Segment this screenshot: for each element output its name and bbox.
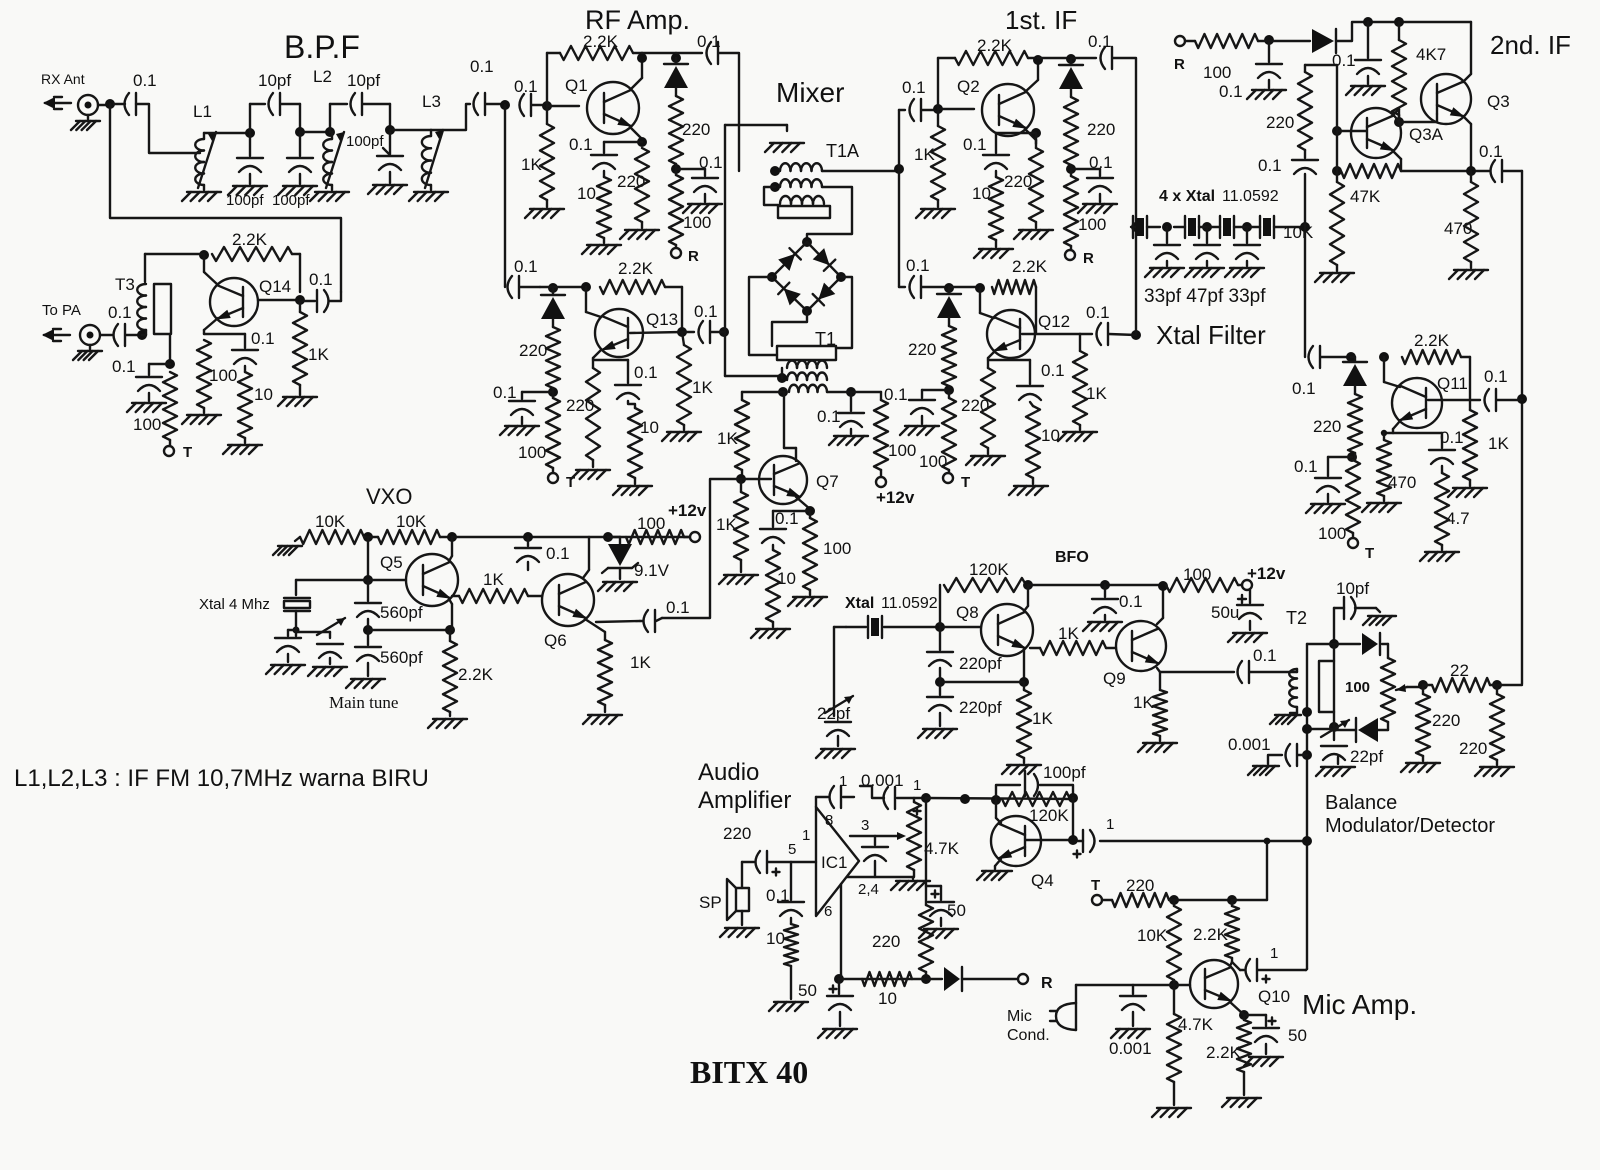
wire Q14 base	[258, 299, 300, 301]
resistor 10 Q13	[628, 401, 642, 478]
svg-text:220: 220	[1432, 711, 1460, 730]
svg-text:10: 10	[777, 569, 796, 588]
ground 220pf	[918, 713, 957, 738]
terminal T Q12	[943, 470, 953, 483]
svg-text:10K: 10K	[315, 512, 346, 531]
node Q11 collector	[1379, 352, 1400, 387]
To PA connector	[80, 325, 100, 345]
label T2	[1286, 608, 1307, 628]
RX antenna arrow	[43, 97, 71, 109]
label 220 Q2 diode	[1087, 120, 1115, 139]
ground To PA	[73, 345, 102, 360]
ground 50u	[1228, 621, 1267, 642]
label 0.1 Q2 in	[902, 78, 926, 97]
winding T1A 1	[780, 163, 822, 171]
transformer T3	[137, 284, 171, 334]
ground 50 Q10	[1244, 1044, 1283, 1066]
transistor Q4	[991, 816, 1041, 866]
transistor Q11	[1392, 378, 1442, 428]
node Q1 emitter	[604, 137, 647, 147]
trimmer 22pf BFO	[825, 696, 853, 736]
wire audio top rail	[926, 798, 1073, 799]
node Q11 T chain	[1347, 452, 1357, 462]
node Q8 base	[935, 622, 945, 632]
title Audio Amplifier	[698, 759, 791, 814]
plus 1 Q4 out	[1074, 851, 1081, 858]
ground 0.1 T1 right	[829, 429, 868, 445]
node 4K7 top a	[1363, 17, 1373, 27]
label 10 audio	[766, 929, 785, 948]
label 2.2K Q11	[1414, 331, 1450, 350]
capacitor 0.1 Q12 in	[899, 276, 949, 298]
ground 100pf B	[278, 174, 317, 195]
wire 2ndIF input top	[1305, 65, 1337, 131]
ground 50 pin6	[818, 1012, 857, 1038]
wire T1A ground rail	[725, 124, 787, 126]
resistor 1K Q1	[540, 106, 554, 200]
title RF Amp.	[585, 5, 690, 35]
label 9.1V	[634, 561, 670, 580]
label 100pf D	[346, 133, 390, 155]
wire B to C	[300, 131, 330, 133]
label T1A	[826, 141, 859, 161]
svg-text:33pf 47pf 33pf: 33pf 47pf 33pf	[1144, 286, 1266, 307]
label 10pf	[1336, 579, 1369, 598]
label 0.1 2nd IF R	[1219, 82, 1243, 101]
label 220pf 2	[959, 698, 1002, 717]
label Xtal 4 Mhz	[199, 596, 270, 613]
resistor 10K mic	[1167, 900, 1181, 980]
label 10 Q12	[1041, 426, 1060, 445]
capacitor 0.1 Q2 emitter	[983, 133, 1009, 169]
wire audio out	[1100, 840, 1307, 842]
transistor Q10	[1190, 960, 1238, 1008]
diode D Q2	[1059, 59, 1083, 89]
label IC1	[821, 853, 847, 872]
label 220 2nd IF in	[1266, 113, 1294, 132]
svg-text:T2: T2	[1286, 608, 1307, 628]
node Q4 collector top	[991, 795, 1001, 805]
ground 1K Q6	[583, 705, 622, 724]
svg-text:10: 10	[878, 989, 897, 1008]
node Q12 collector	[975, 283, 985, 293]
node filter 3	[1234, 222, 1260, 232]
svg-text:220: 220	[617, 172, 645, 191]
capacitor 0.1 Q11 emitter	[1429, 433, 1455, 464]
label 0.1 Q11 in	[1292, 379, 1316, 398]
svg-text:Q5: Q5	[380, 553, 403, 572]
svg-text:Modulator/Detector: Modulator/Detector	[1325, 815, 1495, 837]
ground 220 bal left	[1401, 756, 1440, 772]
svg-text:10pf: 10pf	[347, 71, 380, 90]
wire filter to Q12 node	[1135, 227, 1137, 335]
svg-text:R: R	[688, 248, 699, 265]
svg-text:9.1V: 9.1V	[634, 561, 670, 580]
wire 220 audio gnd chain	[925, 798, 927, 886]
core T1	[777, 346, 836, 360]
svg-text:10: 10	[766, 929, 785, 948]
node 4K7 top	[1394, 17, 1404, 27]
svg-text:L3: L3	[422, 92, 441, 111]
resistor 100 Q7	[803, 511, 817, 590]
svg-text:220: 220	[908, 340, 936, 359]
svg-text:5: 5	[788, 841, 796, 858]
svg-text:4.7: 4.7	[1446, 509, 1470, 528]
svg-text:0.1: 0.1	[1294, 457, 1318, 476]
svg-text:0.1: 0.1	[1253, 646, 1277, 665]
ground 1K Q8	[1002, 758, 1041, 774]
node Q1 collector	[637, 53, 676, 63]
label 100 Q11 chain	[1318, 524, 1346, 543]
label Q5	[380, 553, 403, 572]
label 0.1 Q1 out	[697, 32, 721, 51]
ground 4.7K Q10	[1152, 1082, 1191, 1117]
label 100 Q14	[209, 366, 237, 385]
svg-text:2.2K: 2.2K	[1414, 331, 1450, 350]
svg-text:1K: 1K	[914, 145, 935, 164]
wire Q9 out to T2	[1250, 669, 1297, 672]
label 100pf A	[226, 192, 264, 209]
ground 1K Q9	[1138, 736, 1177, 752]
node Q3 emitter	[1466, 166, 1476, 176]
node R audio	[921, 974, 931, 984]
node T3 bottom	[137, 330, 147, 340]
label Q1	[565, 76, 588, 95]
ground T1A top	[765, 125, 804, 152]
svg-text:6: 6	[824, 903, 832, 920]
label 0.1 audio	[766, 886, 790, 905]
node E BPF out	[500, 100, 510, 110]
label 0.1 VXO out	[666, 598, 690, 617]
resistor 10K 2nd IF	[1330, 171, 1344, 265]
label 560pf 2	[380, 648, 423, 667]
label pin 5	[788, 841, 796, 858]
wire VXO rail	[452, 536, 695, 538]
capacitor 10pf 1	[269, 93, 281, 115]
label Q6	[544, 631, 567, 650]
capacitor 0.001 IC1	[816, 786, 854, 808]
capacitor 0.1 Q2 out	[1071, 47, 1112, 69]
label 10K 2nd IF	[1283, 223, 1314, 242]
capacitor 1 feedback	[860, 786, 926, 809]
svg-text:Q13: Q13	[646, 310, 678, 329]
winding T1A 3	[780, 196, 824, 204]
label 0.1 2nd IF out	[1479, 142, 1503, 161]
capacitor 0.1 Q12 chain	[909, 390, 949, 414]
trimmer main tune	[296, 618, 345, 658]
node Q12 base	[1022, 333, 1080, 335]
capacitor 0.1 Q11 in	[1305, 227, 1351, 368]
svg-text:10: 10	[577, 184, 596, 203]
svg-text:0.001: 0.001	[1109, 1039, 1152, 1058]
wire Q3 collector	[1463, 22, 1471, 82]
wire Q7 emitter	[796, 497, 810, 512]
svg-text:SP: SP	[699, 893, 722, 912]
wire Q11 emitter	[1393, 421, 1400, 433]
wire pot wiper	[1407, 686, 1423, 688]
node balance wiper	[1418, 680, 1428, 690]
svg-text:4 x Xtal: 4 x Xtal	[1159, 188, 1215, 205]
label 100 Q12 chain	[919, 452, 947, 471]
label 0.1 Q1 in	[514, 77, 538, 96]
label Q8	[956, 603, 979, 622]
node Q2 diode	[1066, 54, 1076, 64]
svg-text:100: 100	[823, 539, 851, 558]
To PA arrow	[42, 329, 70, 341]
ring diode top-right	[813, 248, 836, 271]
wire Q13 collector	[586, 287, 601, 317]
wire D2 to rect	[1333, 712, 1335, 727]
label Q4	[1031, 871, 1054, 890]
diode D1 balance	[1334, 633, 1380, 655]
label 33pf 47pf 33pf	[1144, 286, 1266, 307]
wire to Q1 base node	[532, 104, 547, 106]
ground xtal cap	[266, 654, 305, 674]
wire Q5 base down	[367, 537, 369, 580]
label 120K	[969, 560, 1009, 579]
ring diode top-left	[778, 248, 801, 271]
label 1 Q10 out	[1270, 945, 1278, 962]
label Q11	[1437, 374, 1468, 393]
svg-text:8: 8	[825, 812, 833, 829]
resistor 220 Q12 diode	[942, 318, 956, 386]
node T1 left 1	[777, 368, 787, 383]
capacitor pin3 bypass	[862, 836, 888, 877]
label +12v mixer	[876, 488, 915, 507]
node Q12 base chain	[944, 283, 954, 293]
svg-text:Q6: Q6	[544, 631, 567, 650]
label 100 2nd IF	[1203, 63, 1231, 82]
wire Q10 emitter	[1230, 1002, 1242, 1013]
label 10 Q1	[577, 184, 596, 203]
terminal R Q1	[671, 245, 681, 258]
svg-text:220: 220	[682, 120, 710, 139]
svg-text:4K7: 4K7	[1416, 45, 1446, 64]
label 2.2K Q13	[618, 259, 654, 278]
node 220pf mid	[935, 668, 945, 687]
transistor Q14	[210, 278, 258, 326]
svg-text:2.2K: 2.2K	[1012, 257, 1048, 276]
diode D2 balance	[1356, 718, 1388, 742]
capacitor 0.1 Q13 in	[508, 276, 541, 298]
ground 10 Q7	[751, 622, 790, 638]
svg-text:0.1: 0.1	[251, 329, 275, 348]
label 0.1 Q14 emitter	[251, 329, 275, 348]
label pin 3	[861, 817, 869, 834]
capacitor 100pf node A	[237, 133, 263, 172]
wire Q2 out to filter	[1113, 58, 1136, 227]
label 10 Q2	[972, 184, 991, 203]
capacitor 0.001 balance	[1286, 744, 1308, 766]
ground 1K Q12	[1058, 425, 1097, 441]
wire C1 to L1	[136, 104, 200, 153]
label 0.1 Q12 out	[1086, 303, 1110, 322]
label 470 Q11	[1388, 473, 1416, 492]
ground 220 bal right	[1475, 760, 1514, 776]
label 2.2K Q14	[232, 230, 268, 249]
node D	[385, 125, 395, 135]
ground pin 2,4	[891, 877, 930, 890]
rail B mixer left	[724, 125, 726, 376]
label +12v VXO	[668, 501, 707, 520]
svg-text:100: 100	[1078, 215, 1106, 234]
node T1 right	[827, 387, 856, 397]
resistor 1K Q9	[1153, 690, 1167, 736]
ground 1K Q2	[916, 200, 955, 218]
svg-text:Xtal: Xtal	[845, 595, 874, 612]
label T Q14	[183, 444, 192, 461]
wire 50 Q10	[1244, 1015, 1266, 1026]
wire BFO trimmer	[834, 627, 846, 716]
label 0.1 Q12 in	[906, 256, 930, 275]
ground 10 Q1	[582, 238, 621, 254]
label 2.2K VXO	[458, 665, 494, 684]
svg-text:T1A: T1A	[826, 141, 859, 161]
wire emitter feedback	[368, 629, 450, 631]
wire T1A w2 to ring top	[807, 187, 852, 240]
wire T1 right to 100	[851, 392, 881, 400]
node A	[245, 128, 255, 138]
label 0.1 Q11 out	[1484, 367, 1508, 386]
node VXO bias	[363, 532, 373, 542]
label 0.1 Q9 out	[1253, 646, 1277, 665]
resistor 1K Q12	[1073, 334, 1087, 425]
capacitor 0.1 Q9 out	[1238, 661, 1250, 683]
resistor 1K Q6	[598, 640, 612, 705]
svg-text:1K: 1K	[1086, 384, 1107, 403]
label 100pf B	[272, 192, 310, 209]
svg-text:10K: 10K	[1283, 223, 1314, 242]
label 560pf 1	[380, 603, 423, 622]
label pin 1 top	[839, 773, 847, 790]
label Xtal 11.0592	[845, 595, 938, 612]
resistor 10 audio	[784, 918, 798, 966]
svg-text:100pf: 100pf	[272, 192, 310, 209]
svg-text:0.1: 0.1	[493, 383, 517, 402]
wire Q1 base	[547, 105, 579, 107]
wire node E down to Q13 input	[504, 105, 506, 287]
svg-text:Xtal Filter: Xtal Filter	[1156, 320, 1266, 350]
ground 560pf	[346, 663, 385, 688]
capacitor 0.1 Q7 emitter	[760, 511, 786, 543]
wire Q4 base	[1026, 798, 1073, 840]
crystal X3	[1220, 216, 1234, 238]
label 0.1 T3 chain	[112, 357, 136, 376]
node Q13 base	[630, 327, 687, 337]
resistor 100 Q14	[197, 340, 211, 408]
label 220 mic	[1126, 876, 1154, 895]
wire BFO rail	[1028, 584, 1166, 586]
crystal BFO	[846, 616, 940, 638]
wire RX to C1	[98, 104, 106, 106]
svg-text:Q10: Q10	[1258, 987, 1290, 1006]
ground 0.1 T3	[127, 393, 166, 412]
resistor 220 Q12	[981, 368, 995, 448]
svg-text:Q11: Q11	[1437, 374, 1468, 393]
wire 120K up	[939, 585, 941, 627]
wire 2.2K to Q14 base	[292, 254, 300, 292]
svg-text:0.1: 0.1	[694, 302, 718, 321]
wire ring left to T1	[749, 277, 777, 355]
svg-text:0.1: 0.1	[1440, 428, 1464, 447]
wire rect top	[1333, 644, 1335, 661]
node Q7 emitter	[773, 506, 815, 516]
ground 1K Q11	[1448, 480, 1487, 497]
svg-text:2nd. IF: 2nd. IF	[1490, 30, 1571, 60]
svg-text:100: 100	[1345, 679, 1370, 696]
label 4 x Xtal	[1159, 188, 1279, 205]
wire Q13 collector node	[553, 286, 586, 288]
resistor 220 bal right	[1490, 685, 1504, 760]
svg-text:470: 470	[1388, 473, 1416, 492]
transformer T2 core	[1319, 661, 1334, 712]
wire 2.2K to Q11 base	[1461, 357, 1470, 399]
ground L2	[310, 192, 349, 201]
wire 10pf to node	[1334, 608, 1344, 642]
ground 220 Q12	[966, 448, 1005, 465]
label 1K Q11	[1488, 434, 1509, 453]
label 220pf 1	[959, 654, 1002, 673]
svg-text:10pf: 10pf	[258, 71, 291, 90]
resistor 2.2K Q11	[1402, 350, 1461, 364]
label 1K Q14	[308, 345, 329, 364]
label 1 Q4 out	[1106, 816, 1114, 833]
ground 47pf	[1185, 261, 1224, 277]
label 2.2K mic load	[1193, 925, 1229, 944]
node B	[295, 127, 305, 137]
node mic bias	[1169, 895, 1179, 905]
svg-text:4.7K: 4.7K	[924, 839, 960, 858]
winding T1 2	[787, 373, 827, 381]
resistor 100 T3	[163, 372, 177, 440]
resistor 2.2K mic load	[1225, 900, 1239, 958]
resistor 2.2K Q10	[1237, 1015, 1251, 1072]
plus 50 pin6	[830, 986, 837, 993]
node Q3 base chain	[1394, 115, 1404, 127]
capacitor 560pf 1	[355, 580, 381, 617]
svg-text:220: 220	[1266, 113, 1294, 132]
capacitor 50 pin6	[827, 979, 853, 1010]
ground 1K Q1	[525, 200, 564, 218]
svg-text:Q14: Q14	[259, 277, 291, 296]
label 0.1 Q2 emitter	[963, 135, 987, 154]
resistor 10K VXO 2	[372, 530, 452, 544]
wire 2.2K left Q1	[547, 53, 560, 106]
label 0.1 Q13 emitter	[634, 363, 658, 382]
wire xtal bottom	[295, 611, 297, 628]
svg-text:220: 220	[1087, 120, 1115, 139]
capacitor 0.1 BPF out	[474, 93, 486, 115]
label 100pf Q4	[1043, 763, 1086, 782]
node Q13 collector	[581, 282, 591, 292]
node Q2 collector	[1033, 55, 1071, 65]
label 0.1 Q14 out	[309, 270, 333, 289]
capacitor 1 Q10 out	[1246, 959, 1270, 983]
ground 4.7 Q11	[1420, 545, 1459, 561]
svg-text:220: 220	[1313, 417, 1341, 436]
wire balance top left	[1307, 643, 1334, 645]
wire Q14 emitter	[204, 318, 218, 334]
label 220 bal right	[1459, 739, 1487, 758]
label 22pf BFO	[817, 704, 850, 723]
resistor 220 Q11 diode	[1348, 386, 1362, 453]
resistor 2.2K Q2	[955, 51, 1028, 65]
plus 50 Q4	[932, 891, 939, 898]
svg-text:RX Ant: RX Ant	[41, 71, 85, 87]
svg-text:50: 50	[798, 981, 817, 1000]
crystal X4	[1260, 216, 1274, 238]
wire Q12 collector	[980, 288, 994, 318]
